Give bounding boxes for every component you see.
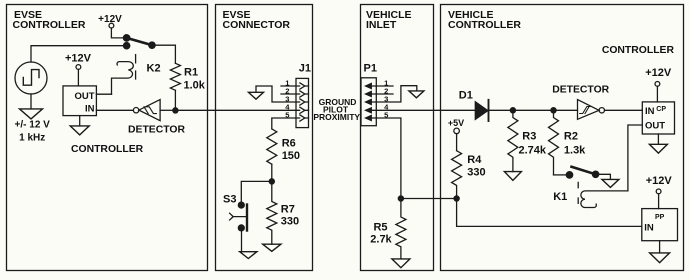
svg-text:K2: K2	[147, 63, 161, 75]
svg-text:S3: S3	[223, 193, 236, 205]
svg-text:D1: D1	[459, 90, 473, 102]
svg-text:R6: R6	[282, 138, 296, 150]
wire J1 pin5 to R6	[272, 118, 300, 129]
wire proximity junction to R4 node	[401, 198, 457, 200]
relay coil K1	[578, 182, 628, 207]
node +12V terminal (controller)	[76, 65, 81, 70]
svg-text:CP: CP	[656, 106, 666, 113]
svg-text:2.7k: 2.7k	[370, 233, 392, 245]
svg-text:R7: R7	[281, 203, 295, 215]
box EVSE CONNECTOR	[216, 5, 313, 271]
ground (J1 pin 3)	[249, 92, 264, 99]
svg-text:R4: R4	[467, 154, 482, 166]
controller box CP (IN/OUT)	[642, 102, 674, 134]
svg-text:+12V: +12V	[65, 52, 92, 64]
ground (P1 pin 3)	[409, 91, 424, 98]
wire oscillator bottom to ground	[30, 94, 32, 109]
wire +12V to CP box	[656, 86, 658, 102]
ground (R5)	[392, 259, 410, 268]
node +12V terminal (CP)	[655, 82, 660, 87]
wire controller bottom to ground	[79, 116, 81, 126]
relay coil K2	[112, 55, 136, 94]
svg-text:P1: P1	[364, 62, 377, 74]
wire CP OUT to K1 coil	[628, 125, 642, 191]
controller box PP (IN)	[642, 209, 678, 241]
node proximity junction (R5)	[398, 196, 403, 201]
svg-text:IN: IN	[645, 106, 655, 117]
resistor R2	[549, 110, 559, 175]
node R4 junction	[454, 196, 459, 201]
node +5V terminal	[454, 128, 460, 134]
wire R1 bottom to pilot node	[174, 90, 176, 110]
svg-text:IN: IN	[85, 103, 95, 114]
relay switch K1 contacts and blade	[554, 167, 599, 178]
svg-text:R3: R3	[522, 131, 536, 143]
ground (CP box)	[649, 144, 667, 153]
svg-text:R5: R5	[373, 221, 387, 233]
node R2 junction	[551, 108, 556, 113]
svg-text:CONTROLLER: CONTROLLER	[71, 144, 144, 155]
label P1 pin numbers	[384, 79, 389, 120]
box VEHICLE INLET	[361, 5, 434, 271]
svg-text:IN: IN	[644, 222, 654, 233]
connector J1	[296, 78, 309, 127]
ground (controller)	[70, 126, 89, 135]
resistor R3	[508, 110, 518, 171]
wire J1 pin3 to ground	[256, 86, 300, 102]
resistor R1	[170, 63, 180, 90]
svg-text:OUT: OUT	[74, 91, 94, 102]
ground (R3)	[504, 172, 521, 181]
resistor R7	[267, 181, 277, 244]
resistor R4	[452, 151, 462, 199]
node R6/R7/S3 junction	[269, 179, 274, 184]
svg-text:150: 150	[282, 150, 300, 162]
wire PP box to ground	[659, 241, 661, 253]
svg-text:+/- 12 V: +/- 12 V	[15, 119, 51, 130]
wire J1 pin1 stub	[281, 85, 300, 87]
svg-text:DETECTOR: DETECTOR	[552, 84, 609, 95]
svg-text:INLET: INLET	[366, 19, 397, 31]
svg-text:CONTROLLER: CONTROLLER	[602, 45, 675, 56]
svg-text:1.0k: 1.0k	[184, 80, 206, 92]
connector P1	[361, 78, 376, 126]
svg-text:R1: R1	[184, 67, 198, 79]
svg-text:PP: PP	[655, 214, 665, 221]
wire detector output to CP box	[605, 109, 643, 111]
wire P1 pin2 stub	[376, 93, 393, 95]
ground (S3)	[240, 252, 257, 259]
node +12V terminal (relay feed)	[109, 23, 114, 28]
node pilot junction (R1/detector/pilot)	[173, 108, 178, 113]
switch S3	[230, 202, 247, 231]
label J1 pin numbers	[285, 79, 290, 120]
relay switch K2 contacts and blade	[123, 35, 155, 49]
diode D1	[475, 100, 488, 121]
wire D1 cathode to detector	[490, 109, 578, 111]
wire P1 pin1 stub	[376, 85, 393, 87]
ground (R7)	[263, 244, 281, 251]
wire detector output to controller IN	[96, 109, 133, 111]
box VEHICLE CONTROLLER	[441, 5, 684, 271]
wire detector input from pilot node	[160, 109, 173, 111]
wire pilot P1 pin4 to D1	[376, 109, 475, 111]
svg-text:330: 330	[467, 167, 485, 179]
wire +12V to PP box	[658, 194, 660, 209]
wire P1 pin3 to ground	[376, 86, 417, 102]
op-amp detector (EVSE)	[133, 100, 160, 121]
ground (oscillator)	[20, 109, 43, 119]
wire controller OUT to coil	[96, 93, 111, 95]
node +12V terminal (PP)	[656, 189, 661, 194]
svg-text:OUT: OUT	[645, 121, 665, 132]
svg-text:CONNECTOR: CONNECTOR	[223, 19, 291, 31]
svg-text:R2: R2	[564, 131, 578, 143]
wire junction to S3	[241, 181, 271, 202]
svg-text:CONTROLLER: CONTROLLER	[13, 19, 86, 31]
ground (K1 switch)	[602, 179, 619, 187]
wire J1 pin2 stub	[281, 93, 300, 95]
wire switch common to R1 top	[152, 45, 175, 63]
op-amp detector (vehicle)	[578, 100, 605, 120]
wire +5V to R4	[456, 134, 458, 151]
svg-text:+12V: +12V	[645, 67, 672, 79]
svg-text:1.3k: 1.3k	[564, 144, 586, 156]
node R3 junction	[510, 108, 515, 113]
oscillator +/- 12V 1kHz source	[15, 62, 47, 94]
resistor R5	[396, 199, 406, 259]
resistor R6	[267, 129, 277, 164]
wire K1 common to ground	[596, 174, 611, 179]
svg-text:K1: K1	[553, 191, 567, 203]
wire R4 node to PP IN	[457, 199, 642, 227]
svg-text:2.74k: 2.74k	[519, 144, 547, 156]
wire P1 pin5 proximity down	[376, 118, 401, 199]
svg-text:PROXIMITY: PROXIMITY	[313, 112, 360, 122]
svg-text:DETECTOR: DETECTOR	[128, 125, 185, 136]
wire CP box to ground	[657, 134, 659, 144]
controller box (EVSE) OUT/IN	[63, 86, 96, 116]
svg-text:+12V: +12V	[646, 175, 673, 187]
box EVSE CONTROLLER	[7, 5, 208, 271]
svg-text:+12V: +12V	[98, 14, 122, 25]
wire pilot line to J1 pin 4	[175, 109, 299, 111]
svg-text:+5V: +5V	[448, 118, 464, 128]
svg-text:J1: J1	[299, 62, 311, 74]
svg-text:CONTROLLER: CONTROLLER	[448, 19, 521, 31]
wire +12V to controller top	[77, 69, 79, 86]
wire +12V terminal to switch top contact	[111, 28, 126, 38]
wire S3 bottom to ground	[241, 231, 243, 252]
wire R6 bottom to junction	[271, 164, 273, 181]
svg-text:1 kHz: 1 kHz	[19, 132, 45, 143]
ground (PP box)	[650, 253, 670, 263]
wire oscillator top to switch throw	[31, 46, 127, 62]
svg-text:330: 330	[281, 215, 299, 227]
